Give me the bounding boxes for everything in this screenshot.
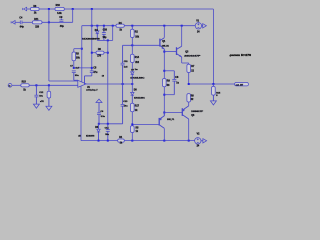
- node dot input/R16: [48, 84, 50, 86]
- node dot outnode/load: [212, 83, 214, 85]
- resistor R6: [31, 7, 40, 10]
- node dot x81.8/R3 branch: [81, 48, 83, 50]
- node dot bottom-node/x107.8: [107, 39, 109, 41]
- svg-text:x7R: x7R: [40, 101, 44, 103]
- svg-text:1m: 1m: [135, 69, 138, 71]
- capacitor C5: [90, 70, 94, 72]
- svg-text:R13: R13: [22, 82, 27, 84]
- node dot x164.3/Q3base: [163, 51, 165, 53]
- svg-text:2SD1047P: 2SD1047P: [184, 54, 201, 57]
- node dot x164.3/C8bot: [163, 94, 165, 96]
- node dot rail/Q1 collector: [163, 25, 165, 27]
- wire x107.8 VAS column: [107, 40, 109, 123]
- svg-text:out_BT: out_BT: [236, 83, 244, 86]
- resistor R10: [55, 7, 64, 10]
- node dot rail/x91.8: [91, 25, 93, 27]
- svg-text:1SE_N1: 1SE_N1: [162, 46, 170, 48]
- node dot x91.8/R8: [91, 52, 93, 54]
- resistor R1: [118, 139, 125, 142]
- svg-text:BZX384B6V8: BZX384B6V8: [86, 135, 95, 138]
- port FB (left arrow flag): [22, 8, 24, 10]
- transistor Q2: [158, 118, 160, 126]
- wire Q1 base line: [123, 44, 160, 46]
- wire local rail y123.8: [99, 123, 123, 125]
- node dot rail/x132.3: [131, 140, 133, 142]
- resistor R7: [187, 64, 191, 72]
- voltage source V1: [195, 23, 201, 29]
- svg-text:1SE_P1: 1SE_P1: [167, 119, 175, 121]
- node dot input/x49: [48, 21, 50, 23]
- wire Q6 base: [164, 112, 182, 114]
- ground below C12: [33, 104, 39, 108]
- ground below R16: [46, 106, 52, 110]
- node dot base-line/x132.3: [131, 44, 133, 46]
- node dot out/C11: [122, 83, 124, 85]
- svg-text:.param R=270: .param R=270: [229, 55, 252, 57]
- capacitor C4: [19, 21, 21, 25]
- node dot rail/D5: [98, 140, 100, 142]
- capacitor C2: [72, 70, 76, 72]
- ground below load: [210, 101, 216, 105]
- ground right of V2: [203, 139, 207, 143]
- capacitor C10: [103, 26, 105, 33]
- ground flag up: [96, 99, 102, 102]
- svg-text:R11: R11: [34, 19, 39, 21]
- svg-text:47u: 47u: [93, 71, 98, 74]
- wire top feedback line: [27, 8, 31, 10]
- wire bottom rail: [81, 140, 118, 142]
- node dot x164.3/C8top: [163, 70, 165, 72]
- node dot y123.8/x107.8: [107, 123, 109, 125]
- node dot out/x132.3: [131, 83, 133, 85]
- voltage source V2: [195, 138, 201, 144]
- capacitor C13: [122, 84, 124, 104]
- transistor Q6: [181, 108, 183, 116]
- svg-text:BZX384B6V8: BZX384B6V8: [82, 37, 101, 40]
- resistor R2: [131, 26, 133, 30]
- resistor R3: [72, 52, 76, 61]
- svg-text:10p: 10p: [103, 37, 108, 39]
- resistor R5: [131, 126, 135, 133]
- wire output node line: [189, 83, 235, 85]
- wire R3 branch: [74, 48, 82, 50]
- transistor Q1: [159, 39, 161, 47]
- resistor R8: [92, 52, 96, 54]
- resistor R15 load: [212, 84, 214, 86]
- resistor R14: [131, 54, 135, 62]
- ground right of V1: [203, 24, 207, 28]
- svg-text:3.3n: 3.3n: [101, 116, 106, 118]
- svg-text:10u: 10u: [124, 106, 128, 108]
- node dot R3/C7: [73, 67, 75, 69]
- capacitor C6: [98, 103, 100, 113]
- wire x132.3: [131, 38, 133, 55]
- resistor R8b lower emitter: [187, 94, 191, 102]
- wire x91.8 column: [91, 9, 93, 71]
- resistor R17: [131, 103, 135, 111]
- node dot rail/C14: [107, 140, 109, 142]
- diode D5 zener: [98, 124, 100, 129]
- node dot top-feedback/x72.7: [72, 8, 74, 10]
- wire x72.7 riser: [72, 9, 74, 22]
- port IN2 (left arrow flag): [10, 21, 12, 23]
- svg-text:R14: R14: [135, 56, 140, 59]
- node dot rail/x132.3: [131, 25, 133, 27]
- node dot rail/Q3 collector: [181, 25, 183, 27]
- wire Q3 emitter jog: [181, 57, 183, 63]
- svg-text:33u: 33u: [75, 75, 79, 77]
- svg-text:64p: 64p: [20, 25, 25, 28]
- wire Q2 base: [131, 112, 133, 126]
- svg-text:univOpAmp_V: univOpAmp_V: [86, 89, 98, 92]
- node dot rail/D4: [96, 25, 98, 27]
- resistor R4: [116, 24, 124, 27]
- node dot x164.3/Q6base: [163, 112, 165, 114]
- svg-text:1N4148C: 1N4148C: [134, 97, 145, 100]
- node dot y123.8/C6: [98, 123, 100, 125]
- wire Q3 base line: [164, 51, 176, 53]
- wire feedback column x48.9: [48, 9, 50, 81]
- resistor R13: [21, 84, 29, 87]
- capacitor C14: [107, 124, 109, 130]
- wire supply drop x81.8: [81, 26, 83, 82]
- wire U1 output line: [86, 83, 132, 85]
- node dot rail/C10: [103, 25, 105, 27]
- node dot rail/x112.7: [112, 25, 114, 27]
- capacitor C9: [60, 19, 62, 20]
- svg-text:R10: R10: [56, 5, 61, 7]
- wire bottom input line: [15, 21, 20, 23]
- node dot rail/Q6 collector: [188, 140, 190, 142]
- wire input line: [12, 84, 21, 86]
- wire +V rail y25.7: [82, 25, 116, 27]
- svg-text:2SB817P: 2SB817P: [191, 111, 204, 113]
- svg-text:10u: 10u: [39, 96, 43, 98]
- node dot x91.8/y67.9: [91, 67, 93, 69]
- svg-text:C10: C10: [103, 30, 108, 32]
- port in (circle flag): [8, 83, 12, 87]
- capacitor C12: [35, 85, 37, 95]
- capacitor C8: [164, 70, 174, 72]
- wire V1 to ground: [202, 25, 203, 27]
- op-amp U1: [78, 80, 86, 87]
- node dot top-feedback/x49: [48, 8, 50, 10]
- resistor R11: [32, 21, 42, 24]
- wire R3C7 node to x91.8: [74, 67, 92, 69]
- wire feedback right drop: [212, 9, 214, 84]
- node dot rail/Q2 emitter: [163, 140, 165, 142]
- node dot R8 right: [107, 52, 109, 54]
- node dot outnode/R7R8: [188, 83, 190, 85]
- node dot x132.3/out: [131, 75, 133, 93]
- svg-text:R17: R17: [135, 106, 140, 108]
- node dot top-feedback/x91.8: [91, 8, 93, 10]
- svg-text:33u: 33u: [105, 134, 109, 136]
- capacitor C11: [122, 45, 124, 63]
- node dot Q2base/R5: [131, 123, 133, 125]
- resistor R16: [48, 85, 50, 91]
- svg-text:5.6k: 5.6k: [57, 13, 62, 15]
- wire V2 to ground: [201, 140, 203, 142]
- port out_BT flag: [235, 83, 249, 86]
- wire U1 negative supply: [80, 86, 82, 141]
- transistor Q3: [176, 47, 178, 55]
- svg-text:43p: 43p: [60, 25, 65, 28]
- diode D4 zener: [96, 26, 98, 31]
- wire D4/C10 bottom node: [97, 39, 112, 41]
- resistor R9: [163, 79, 167, 87]
- node dot input/C12: [35, 84, 37, 86]
- wire VAS bias column x164.3: [163, 52, 165, 80]
